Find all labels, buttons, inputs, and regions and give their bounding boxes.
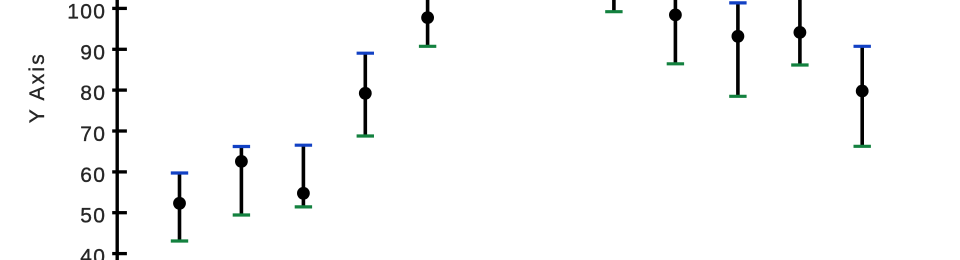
svg-text:80: 80 xyxy=(80,82,106,105)
svg-text:40: 40 xyxy=(80,246,106,260)
svg-text:100: 100 xyxy=(67,0,106,23)
svg-text:50: 50 xyxy=(80,205,106,228)
svg-text:70: 70 xyxy=(80,123,106,146)
svg-text:90: 90 xyxy=(80,41,106,64)
svg-text:Y Axis: Y Axis xyxy=(26,52,49,123)
svg-text:60: 60 xyxy=(80,164,106,187)
